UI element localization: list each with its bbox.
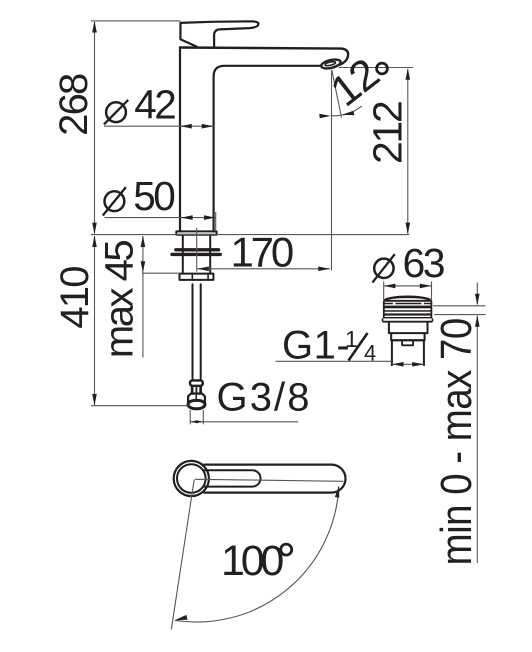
arrow o50 left — [181, 215, 193, 220]
handle pivot inner circle — [177, 464, 206, 493]
ext line spout tip — [339, 67, 414, 69]
drain thin ring line — [383, 310, 432, 312]
bottom line at hose end — [91, 405, 188, 407]
mounting nut — [180, 274, 214, 280]
arrow o63 right — [420, 284, 432, 289]
hose rib section — [191, 386, 202, 394]
text o50 diameter symbol — [105, 191, 125, 211]
drain dome cap inner — [387, 297, 429, 300]
spout centerline — [331, 70, 333, 270]
spout underside, inner corner, column right edge — [214, 66, 322, 232]
handle lever outline top view — [204, 465, 346, 493]
dim line min0max70 lower — [476, 316, 478, 563]
svg-text:max 45: max 45 — [98, 241, 142, 358]
dim line max45 — [142, 236, 144, 358]
drain flange — [383, 318, 433, 321]
svg-text:G1-: G1- — [282, 324, 350, 368]
drain cap bottom broken line — [384, 303, 432, 305]
handle block left edge + bevel — [180, 23, 196, 47]
svg-text:212: 212 — [365, 102, 411, 164]
drain body — [389, 322, 428, 334]
ext line shank bottom — [142, 272, 180, 274]
drain dark ring 1 — [383, 306, 432, 309]
ext line faucet top — [91, 20, 180, 22]
drain side right — [430, 301, 432, 318]
svg-text:170: 170 — [231, 228, 293, 275]
12 deg tilted line — [332, 70, 342, 118]
drain dark ring 2 — [383, 313, 432, 315]
ext line o63 right — [431, 282, 433, 301]
drain side left — [383, 301, 385, 318]
leader line G1-1/4 — [276, 360, 392, 362]
arrow max45 bottom — [141, 261, 146, 273]
hose nut bottom ellipse — [188, 400, 205, 409]
svg-text:268: 268 — [52, 74, 96, 136]
drain lower body right — [423, 340, 425, 366]
dim line 170 — [197, 268, 330, 270]
text 100deg degree circle — [281, 544, 292, 555]
handle radius line right — [195, 479, 344, 481]
svg-text:410: 410 — [53, 267, 97, 329]
threaded shank left — [182, 235, 184, 273]
arrow 410 top — [92, 235, 97, 247]
svg-text:50: 50 — [133, 173, 174, 219]
arrow 100deg arc left end — [174, 615, 188, 621]
arrow 12deg on arc — [342, 111, 354, 116]
12 deg arc — [332, 106, 362, 116]
dim line o42 with underline — [104, 125, 213, 127]
dim+leader line G3/8 — [190, 421, 298, 423]
ext line hose dim right — [202, 410, 204, 425]
arrow o50 right — [204, 215, 216, 220]
faucet lever handle (side view) — [181, 21, 259, 46]
ext line drain flange right upper — [433, 305, 486, 307]
supply hose left edge — [192, 284, 194, 380]
handle radius line left — [171, 480, 194, 630]
faucet centerline — [196, 228, 198, 272]
arrow 212 bottom — [406, 223, 411, 235]
handle inner slot — [204, 470, 261, 486]
svg-text:100: 100 — [221, 537, 283, 585]
arrow 170 right — [318, 267, 330, 272]
arrow min0max70 up — [475, 315, 480, 327]
drain step — [391, 333, 424, 340]
hose nut G3/8 — [188, 394, 205, 403]
faucet body top line and spout tip hook — [180, 48, 348, 65]
aerator outer — [320, 58, 341, 70]
arrow hose dim right — [196, 420, 203, 423]
arrow drain dim left — [392, 362, 404, 367]
arrow o63 left — [384, 284, 396, 289]
arrow 268 bottom — [92, 223, 97, 235]
svg-text:63: 63 — [403, 240, 444, 286]
base flange — [176, 231, 216, 234]
ext line o50 right — [215, 212, 217, 230]
counter line — [91, 234, 409, 236]
dim line o63 — [384, 285, 432, 287]
nut facet line 2 — [207, 274, 209, 280]
svg-text:4: 4 — [364, 341, 376, 366]
hose ferrule — [190, 380, 203, 385]
drain dome cap outer — [384, 297, 432, 301]
text 12deg degree circle — [377, 63, 388, 74]
nut facet line 1 — [191, 274, 193, 280]
drain bottom edge line — [392, 339, 424, 341]
ext line hose dim left — [189, 410, 191, 425]
aerator inner — [325, 61, 336, 66]
ext line drain flange right lower — [434, 314, 486, 316]
arrow o42 left — [180, 124, 192, 129]
washer band 1 — [176, 248, 219, 251]
dim line drain bottom — [392, 363, 424, 365]
dim line 212 — [407, 69, 409, 234]
drain ring line above flange — [383, 317, 432, 318]
drain tab — [402, 340, 413, 345]
arrow drain dim right — [412, 362, 424, 367]
ext line o63 left — [383, 282, 385, 301]
text o42 diameter symbol — [106, 102, 126, 122]
100 deg arc — [175, 486, 338, 622]
arrow 268 top — [92, 21, 97, 33]
drain cap base line — [384, 300, 432, 302]
dim line 410 — [94, 236, 96, 405]
svg-text:min 0 - max 70: min 0 - max 70 — [432, 318, 481, 565]
arrow hose dim left — [190, 420, 197, 423]
threaded shank right — [209, 235, 211, 273]
supply hose right edge — [200, 284, 202, 380]
svg-text:42: 42 — [134, 82, 175, 128]
arrow max45 top — [141, 235, 146, 247]
arrow 170 left — [197, 267, 209, 272]
handle pivot outer circle — [174, 461, 209, 496]
arrow 410 bottom — [92, 394, 97, 406]
dim line o50 with underline — [105, 217, 216, 219]
arrow 212 top — [406, 68, 411, 80]
fraction slash — [349, 333, 368, 361]
arrow 100deg arc right end — [335, 486, 340, 498]
svg-text:G3/8: G3/8 — [217, 376, 312, 420]
arrow min0max70 down — [475, 294, 480, 306]
hose nut facet — [195, 394, 197, 402]
arrow 12deg at vertical line — [319, 114, 331, 119]
text o63 diameter symbol — [374, 259, 393, 278]
washer band 2 — [172, 253, 220, 256]
dim line min0max70 upper — [476, 283, 478, 305]
arrow o42 right — [202, 124, 214, 129]
faucet body left edge — [179, 48, 181, 232]
dim line 268 — [94, 22, 96, 234]
drain lower body left — [391, 340, 393, 366]
